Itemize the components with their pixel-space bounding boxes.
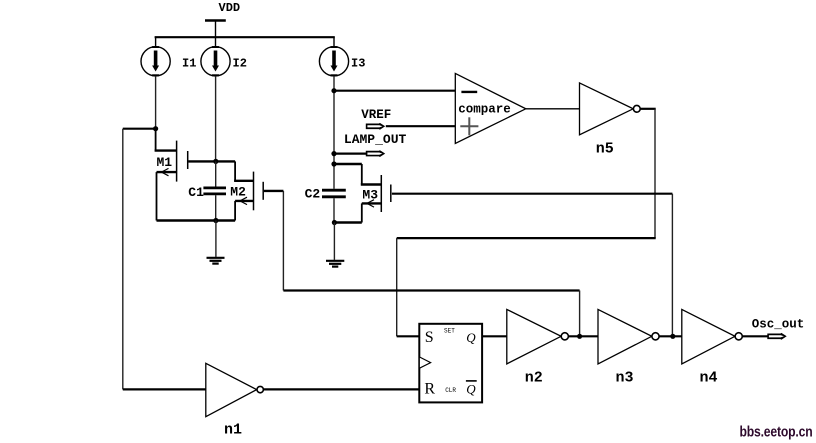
VREF terminal pin bbox=[361, 108, 391, 130]
svg-text:SET: SET bbox=[444, 328, 455, 335]
VDD supply symbol bbox=[205, 1, 240, 47]
svg-text:CLR: CLR bbox=[445, 387, 456, 394]
svg-text:I1: I1 bbox=[182, 57, 196, 71]
svg-text:n4: n4 bbox=[700, 369, 718, 386]
svg-text:I2: I2 bbox=[233, 57, 247, 71]
svg-text:n2: n2 bbox=[525, 369, 543, 386]
svg-text:M1: M1 bbox=[157, 155, 173, 170]
wire M2 gate lead bbox=[264, 190, 284, 192]
junction dot gate node bbox=[213, 159, 218, 164]
junction dot I3 comparator branch bbox=[331, 88, 336, 93]
wire M1 gate lead bbox=[188, 160, 215, 162]
wire comparator minus input bbox=[334, 90, 455, 92]
wire I2 lead down bbox=[215, 76, 217, 161]
svg-text:bbs.eetop.cn: bbs.eetop.cn bbox=[739, 424, 812, 440]
svg-text:R: R bbox=[424, 381, 435, 398]
junction dot n3 out bbox=[670, 334, 675, 339]
ground right bbox=[326, 223, 344, 267]
wire n5 down vertical bbox=[654, 109, 656, 238]
wire M3 gate net bbox=[392, 193, 673, 195]
svg-text:C2: C2 bbox=[305, 187, 321, 202]
wire n2 output bbox=[569, 335, 599, 337]
wire n1 input bbox=[123, 388, 206, 390]
wire comparator output bbox=[526, 108, 580, 110]
wire I3 lead down to C2 bbox=[333, 76, 335, 189]
transistor M2 bbox=[216, 161, 263, 220]
inverter n2 bbox=[507, 309, 569, 386]
capacitor C1 bbox=[188, 161, 226, 220]
svg-text:VDD: VDD bbox=[219, 1, 241, 15]
svg-text:M3: M3 bbox=[362, 188, 378, 203]
Osc_out terminal pin bbox=[752, 318, 805, 340]
junction dot M3 drain branch bbox=[331, 161, 336, 166]
capacitor C2 bbox=[305, 187, 346, 223]
svg-text:n5: n5 bbox=[596, 140, 614, 157]
junction dot node A bbox=[153, 126, 158, 131]
wire comparator plus input bbox=[386, 125, 456, 127]
wire n1 output to R bbox=[264, 388, 420, 390]
svg-text:n3: n3 bbox=[616, 369, 634, 386]
flip-flop U2 SR latch bbox=[419, 324, 482, 403]
op-amp U1 comparator bbox=[455, 73, 526, 143]
inverter n4 bbox=[682, 309, 743, 386]
wire n4 output bbox=[742, 335, 767, 337]
svg-text:n1: n1 bbox=[224, 422, 242, 439]
junction dot LAMP_OUT bbox=[331, 151, 336, 156]
junction dot bottom rail bbox=[213, 218, 218, 223]
transistor M3 bbox=[334, 164, 391, 223]
wire n5 to S horizontal bbox=[397, 237, 656, 239]
wire S vertical bbox=[396, 238, 398, 336]
wire M3 gate net vertical bbox=[671, 194, 673, 337]
wire M2 gate net vertical bbox=[282, 191, 284, 291]
wire LAMP_OUT stub bbox=[334, 153, 367, 155]
inverter n5 bbox=[580, 83, 641, 157]
ground left bbox=[207, 221, 225, 264]
wire n5 output bbox=[640, 108, 655, 110]
wire bottom rail M1/M2 bbox=[157, 219, 236, 221]
svg-text:S: S bbox=[425, 329, 434, 346]
junction dot n2 out bbox=[577, 334, 582, 339]
svg-text:compare: compare bbox=[458, 103, 511, 117]
wire n2 feedback vertical bbox=[579, 291, 581, 337]
svg-text:C1: C1 bbox=[188, 185, 204, 200]
wire VDD rail bbox=[155, 36, 335, 38]
current source I1 bbox=[141, 37, 196, 76]
wire I1 lead down bbox=[155, 76, 157, 129]
wire Q output bbox=[482, 335, 507, 337]
current source I3 bbox=[319, 37, 365, 76]
wire S input bbox=[397, 335, 420, 337]
svg-text:Q: Q bbox=[466, 330, 476, 345]
wire feedback left vertical bbox=[122, 129, 124, 390]
node A horizontal bbox=[123, 128, 157, 130]
wire M3 source to C2 node bbox=[334, 221, 362, 223]
svg-text:Osc_out: Osc_out bbox=[752, 318, 805, 332]
current source I2 bbox=[201, 46, 247, 76]
svg-text:Q: Q bbox=[466, 382, 476, 397]
wire n3 output bbox=[659, 335, 682, 337]
inverter n1 bbox=[206, 363, 264, 438]
svg-text:LAMP_OUT: LAMP_OUT bbox=[344, 132, 407, 147]
inverter n3 bbox=[598, 309, 659, 386]
svg-text:I3: I3 bbox=[351, 57, 365, 71]
svg-text:M2: M2 bbox=[230, 184, 246, 199]
svg-text:VREF: VREF bbox=[361, 108, 391, 122]
wire M2 gate net horizontal bbox=[283, 289, 579, 291]
LAMP_OUT terminal pin bbox=[344, 132, 407, 157]
junction dot C2 bottom bbox=[332, 220, 337, 225]
transistor M1 bbox=[155, 129, 188, 221]
